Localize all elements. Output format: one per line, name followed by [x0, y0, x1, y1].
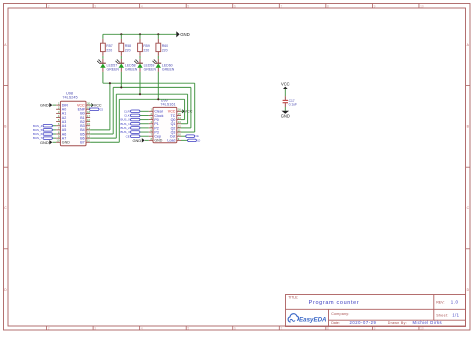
svg-text:6: 6 — [234, 4, 236, 8]
svg-text:GND: GND — [133, 138, 142, 143]
LED LED58 GREEN — [115, 59, 138, 72]
svg-text:74LS161: 74LS161 — [160, 103, 175, 107]
wire VCC to capacitor — [284, 89, 286, 100]
svg-text:3: 3 — [94, 327, 96, 331]
svg-text:BUS_7: BUS_7 — [33, 136, 43, 140]
resistor R57 220 — [101, 39, 113, 56]
svg-text:14: 14 — [178, 116, 181, 120]
svg-text:Drawn By:: Drawn By: — [388, 321, 407, 325]
power flag VCC top of decoupling branch — [281, 82, 290, 89]
power flag VCC at U99 VCC pin — [181, 110, 193, 114]
wire net Q0 loop (rail 4) — [90, 99, 185, 142]
svg-text:220: 220 — [162, 48, 168, 52]
junction dots on top rail — [120, 33, 159, 35]
frame column ticks top/bottom — [47, 4, 424, 331]
svg-text:7: 7 — [281, 327, 283, 331]
svg-text:4: 4 — [141, 327, 143, 331]
svg-text:3: 3 — [94, 4, 96, 8]
svg-text:15: 15 — [178, 112, 181, 116]
op-amp U99 body 74LS161 — [153, 98, 177, 142]
svg-text:17: 17 — [87, 114, 90, 118]
svg-text:9: 9 — [374, 4, 376, 8]
date and drawn-by cell — [331, 320, 442, 325]
svg-text:10: 10 — [420, 4, 424, 8]
svg-text:13: 13 — [87, 130, 90, 134]
svg-text:1.0: 1.0 — [451, 300, 459, 305]
sheet cell — [436, 313, 459, 318]
svg-text:74LS245: 74LS245 — [62, 96, 77, 100]
wire column 3 vertical — [139, 34, 141, 94]
svg-text:13: 13 — [178, 120, 181, 124]
resistor R60 220 — [156, 39, 168, 56]
svg-text:GND: GND — [180, 32, 190, 37]
wire net Q2 loop (rail 2) — [90, 87, 191, 134]
svg-text:11: 11 — [178, 128, 181, 132]
svg-text:5: 5 — [187, 327, 189, 331]
svg-text:0.1uF: 0.1uF — [289, 103, 297, 107]
svg-text:EasyEDA: EasyEDA — [299, 317, 327, 324]
svg-text:10: 10 — [178, 133, 181, 137]
svg-text:8: 8 — [327, 327, 329, 331]
svg-text:Program counter: Program counter — [309, 300, 360, 306]
ground flag top-right GND — [176, 31, 189, 37]
svg-text:GREEN: GREEN — [162, 67, 175, 71]
net ports BUS_4-BUS_7 at U98 A4-A7 — [33, 124, 56, 140]
svg-text:10: 10 — [420, 327, 424, 331]
title text — [288, 296, 359, 306]
svg-text:CE: CE — [195, 135, 199, 138]
EasyEDA logo — [288, 314, 327, 324]
LED LED59 GREEN — [134, 59, 157, 72]
svg-text:12: 12 — [87, 135, 90, 139]
svg-text:Company:: Company: — [331, 312, 349, 316]
U99 left pins Clear Clock P0-P3 Cep GND — [149, 108, 164, 143]
svg-text:VCC: VCC — [185, 110, 193, 114]
svg-text:10: 10 — [56, 139, 59, 143]
wire column 1 vertical — [102, 34, 104, 83]
svg-text:CE: CE — [126, 134, 130, 138]
wire top ground rail — [103, 33, 176, 35]
U99 right pins VCC TC Q0-Q3 Cet Load — [167, 108, 181, 143]
ground flag at U99 GND pin — [133, 138, 149, 143]
svg-text:Date:: Date: — [331, 321, 340, 325]
net ports CLR CLK BUS_0-BUS_3 CE at U99 left — [121, 109, 149, 138]
svg-text:2020-07-29: 2020-07-29 — [350, 320, 377, 325]
ground flag at U98 DIR pin — [40, 103, 56, 108]
svg-text:GND: GND — [40, 140, 49, 145]
junction node rail4 — [157, 98, 159, 100]
rev cell — [436, 300, 458, 305]
net port CET at U99 Cet pin — [181, 135, 199, 138]
svg-text:2: 2 — [48, 327, 50, 331]
frame row ticks left/right with letters — [4, 43, 471, 292]
resistor R58 220 — [119, 39, 131, 56]
svg-text:GND: GND — [62, 141, 70, 145]
svg-text:12: 12 — [178, 124, 181, 128]
svg-text:220: 220 — [106, 48, 112, 52]
net port CE at U98 EN# pin — [90, 108, 104, 111]
op-amp U98 body 74LS245 — [60, 92, 86, 146]
svg-text:REV:: REV: — [436, 300, 444, 304]
svg-text:6: 6 — [234, 327, 236, 331]
svg-text:4: 4 — [141, 4, 143, 8]
svg-text:9: 9 — [374, 327, 376, 331]
ground flag at U98 GND pin — [40, 140, 56, 145]
junction node rail2 — [120, 86, 122, 88]
U98 right pins VCC EN# B0-B7 — [77, 102, 90, 145]
svg-text:Sheet:: Sheet: — [436, 313, 449, 317]
junction node rail1 — [109, 82, 111, 84]
svg-text:GND: GND — [281, 113, 290, 118]
resistor R59 220 — [138, 39, 150, 56]
svg-text:2: 2 — [48, 4, 50, 8]
title block — [286, 295, 466, 327]
wire capacitor to ground — [284, 103, 286, 111]
svg-text:VCC: VCC — [94, 104, 102, 108]
svg-text:B7: B7 — [80, 141, 84, 145]
svg-text:GREEN: GREEN — [144, 67, 157, 71]
wire column 4 vertical — [157, 34, 159, 99]
svg-text:5: 5 — [187, 4, 189, 8]
net port LOAD at U99 Load pin — [181, 139, 201, 142]
ground symbol bottom of decoupling branch — [281, 111, 290, 119]
svg-text:GREEN: GREEN — [125, 67, 138, 71]
svg-text:15: 15 — [87, 122, 90, 126]
svg-text:GREEN: GREEN — [107, 67, 120, 71]
svg-text:220: 220 — [125, 48, 131, 52]
svg-text:LD: LD — [197, 139, 200, 142]
power flag VCC at U98 VCC pin — [90, 104, 102, 108]
wire column 2 vertical — [120, 34, 122, 87]
LED LED57 GREEN — [97, 59, 120, 72]
svg-text:220: 220 — [143, 48, 149, 52]
U98 left pins DIR A0-A7 GND — [56, 102, 70, 145]
wire net Q1 loop (rail 3) — [90, 94, 188, 138]
svg-text:GND: GND — [154, 139, 162, 143]
svg-text:16: 16 — [87, 118, 90, 122]
svg-text:Load: Load — [167, 139, 175, 143]
junction node rail3 — [139, 93, 141, 95]
capacitor C17 0.1uF — [283, 99, 297, 107]
svg-text:14: 14 — [87, 126, 90, 130]
svg-text:TITLE:: TITLE: — [288, 296, 298, 300]
svg-text:8: 8 — [327, 4, 329, 8]
svg-text:Michiel Dirks: Michiel Dirks — [413, 320, 443, 325]
svg-text:20: 20 — [87, 102, 90, 106]
svg-text:1/1: 1/1 — [452, 313, 459, 318]
svg-text:GND: GND — [40, 103, 49, 108]
wire net Q3 loop (rail 1) — [90, 83, 195, 132]
svg-text:VCC: VCC — [281, 82, 290, 87]
svg-text:7: 7 — [281, 4, 283, 8]
svg-text:16: 16 — [178, 108, 181, 112]
LED LED60 GREEN — [152, 59, 175, 72]
